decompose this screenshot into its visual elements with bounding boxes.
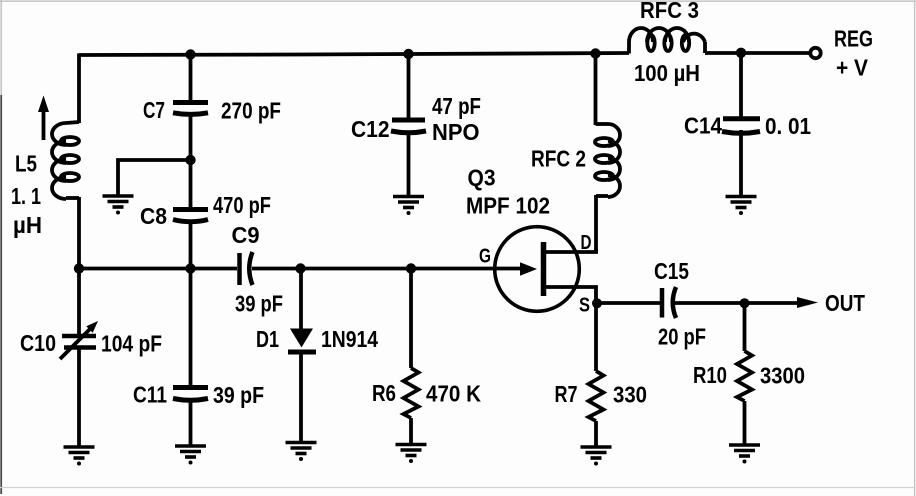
inductor L5 [52, 122, 79, 199]
wire C15 to OUT with arrow [675, 301, 800, 305]
wire C7 to C8 [189, 114, 193, 210]
wire C10 branch [77, 267, 81, 334]
resistor R7 [589, 303, 604, 447]
svg-text:NPO: NPO [432, 119, 480, 145]
wire C14 to ground [739, 130, 743, 197]
svg-text:C15: C15 [654, 258, 689, 284]
ground (C14) [726, 197, 757, 216]
transistor Q3 source lead [544, 287, 597, 304]
svg-text:100 µH: 100 µH [634, 60, 700, 86]
capacitor C8 [173, 210, 208, 222]
diode D1 [288, 267, 316, 443]
wire C11 branch [189, 267, 193, 388]
capacitor C9 [240, 252, 253, 285]
svg-text:104 pF: 104 pF [101, 331, 162, 357]
svg-text:39 pF: 39 pF [235, 291, 283, 317]
svg-text:3300: 3300 [760, 363, 805, 389]
node bottom bus / D1 [295, 263, 305, 273]
capacitor C15 [662, 287, 676, 318]
node top bus / C7 [185, 49, 195, 59]
wire S to C15 [596, 301, 660, 305]
capacitor C11 [173, 388, 208, 401]
svg-text:D1: D1 [256, 326, 279, 352]
svg-text:270 pF: 270 pF [221, 98, 281, 124]
svg-text:47 pF: 47 pF [432, 93, 481, 119]
transistor Q3 gate arrow [520, 262, 537, 275]
ground (C10) [64, 447, 95, 466]
ground (R7) [581, 447, 612, 466]
transistor Q3 channel bar [541, 242, 547, 296]
wire left rail lower [77, 197, 81, 270]
svg-text:C14: C14 [684, 113, 722, 139]
node bottom bus / L5-C10 [74, 263, 84, 273]
wire bottom bus right of C9 (gate wire) [252, 267, 521, 271]
svg-text:S: S [579, 295, 590, 317]
wire RFC2 to drain [594, 195, 598, 252]
node top bus / C12 [403, 49, 413, 59]
svg-text:C10: C10 [20, 330, 56, 356]
svg-text:C11: C11 [133, 382, 167, 408]
wire C14 rail [739, 53, 743, 119]
resistor R6 [404, 267, 419, 445]
node bottom bus / C8-C11 [185, 263, 195, 273]
capacitor C14 [722, 119, 760, 133]
ground (R6) [396, 445, 427, 464]
ground (R10) [729, 445, 760, 464]
svg-text:OUT: OUT [825, 290, 865, 316]
wire top bus left segment [79, 53, 629, 55]
svg-text:C9: C9 [232, 222, 260, 248]
inductor RFC2 [595, 124, 620, 197]
svg-text:20 pF: 20 pF [658, 324, 706, 350]
node at C7/C8 junction [185, 155, 195, 165]
capacitor C7 [173, 103, 208, 115]
wire C11 to ground [189, 399, 193, 446]
wire C10 to ground [77, 347, 81, 447]
wire left rail upper [77, 53, 81, 123]
wire C12 rail [407, 54, 411, 120]
svg-text:+ V: + V [836, 55, 869, 81]
capacitor C10 (variable) [60, 321, 98, 359]
svg-text:R10: R10 [693, 362, 727, 388]
svg-text:MPF 102: MPF 102 [466, 193, 550, 219]
transistor Q3 circle [495, 227, 580, 312]
node top bus / RFC2 [590, 48, 600, 58]
capacitor C12 [391, 120, 426, 133]
svg-text:R7: R7 [555, 381, 578, 407]
transistor Q3 drain lead [544, 249, 597, 252]
ground (D1) [286, 443, 317, 462]
ground (C11) [175, 446, 206, 465]
wire C8 to bottom bus [189, 221, 193, 270]
svg-text:Q3: Q3 [468, 165, 496, 191]
svg-text:C8: C8 [140, 203, 167, 229]
wire RFC2 rail top [594, 54, 598, 126]
svg-text:1. 1: 1. 1 [11, 183, 41, 209]
node C15 / R10 [740, 298, 750, 308]
svg-text:330: 330 [613, 382, 647, 408]
svg-text:RFC 3: RFC 3 [640, 0, 699, 23]
svg-text:0. 01: 0. 01 [765, 113, 811, 139]
svg-text:C7: C7 [143, 97, 165, 123]
svg-text:REG: REG [834, 26, 873, 52]
wire C12 to ground [407, 131, 411, 197]
resistor R10 [737, 303, 752, 445]
terminal REG +V [810, 48, 820, 58]
wire rail B C7 top [189, 55, 193, 103]
svg-text:39 pF: 39 pF [213, 382, 264, 408]
ground (C12) [393, 197, 424, 216]
wire top bus right of RFC3 [705, 51, 810, 55]
node top bus / C14 [736, 48, 746, 58]
svg-text:RFC 2: RFC 2 [531, 146, 586, 172]
node bottom bus / R6 [406, 263, 416, 273]
wire bottom bus left of C9 [79, 267, 237, 271]
svg-text:R6: R6 [372, 380, 396, 406]
wire ground stub [118, 160, 191, 196]
svg-text:G: G [479, 246, 491, 268]
L5 adjust arrow [38, 96, 49, 141]
svg-text:µH: µH [13, 212, 42, 238]
svg-text:D: D [581, 232, 592, 254]
svg-text:C12: C12 [351, 116, 390, 142]
ground (stub) [103, 196, 134, 215]
svg-text:470 pF: 470 pF [213, 192, 271, 218]
svg-text:470 K: 470 K [426, 381, 481, 407]
node S [592, 298, 602, 308]
svg-text:1N914: 1N914 [321, 326, 378, 352]
svg-text:L5: L5 [15, 151, 37, 177]
inductor RFC3 [629, 28, 705, 54]
